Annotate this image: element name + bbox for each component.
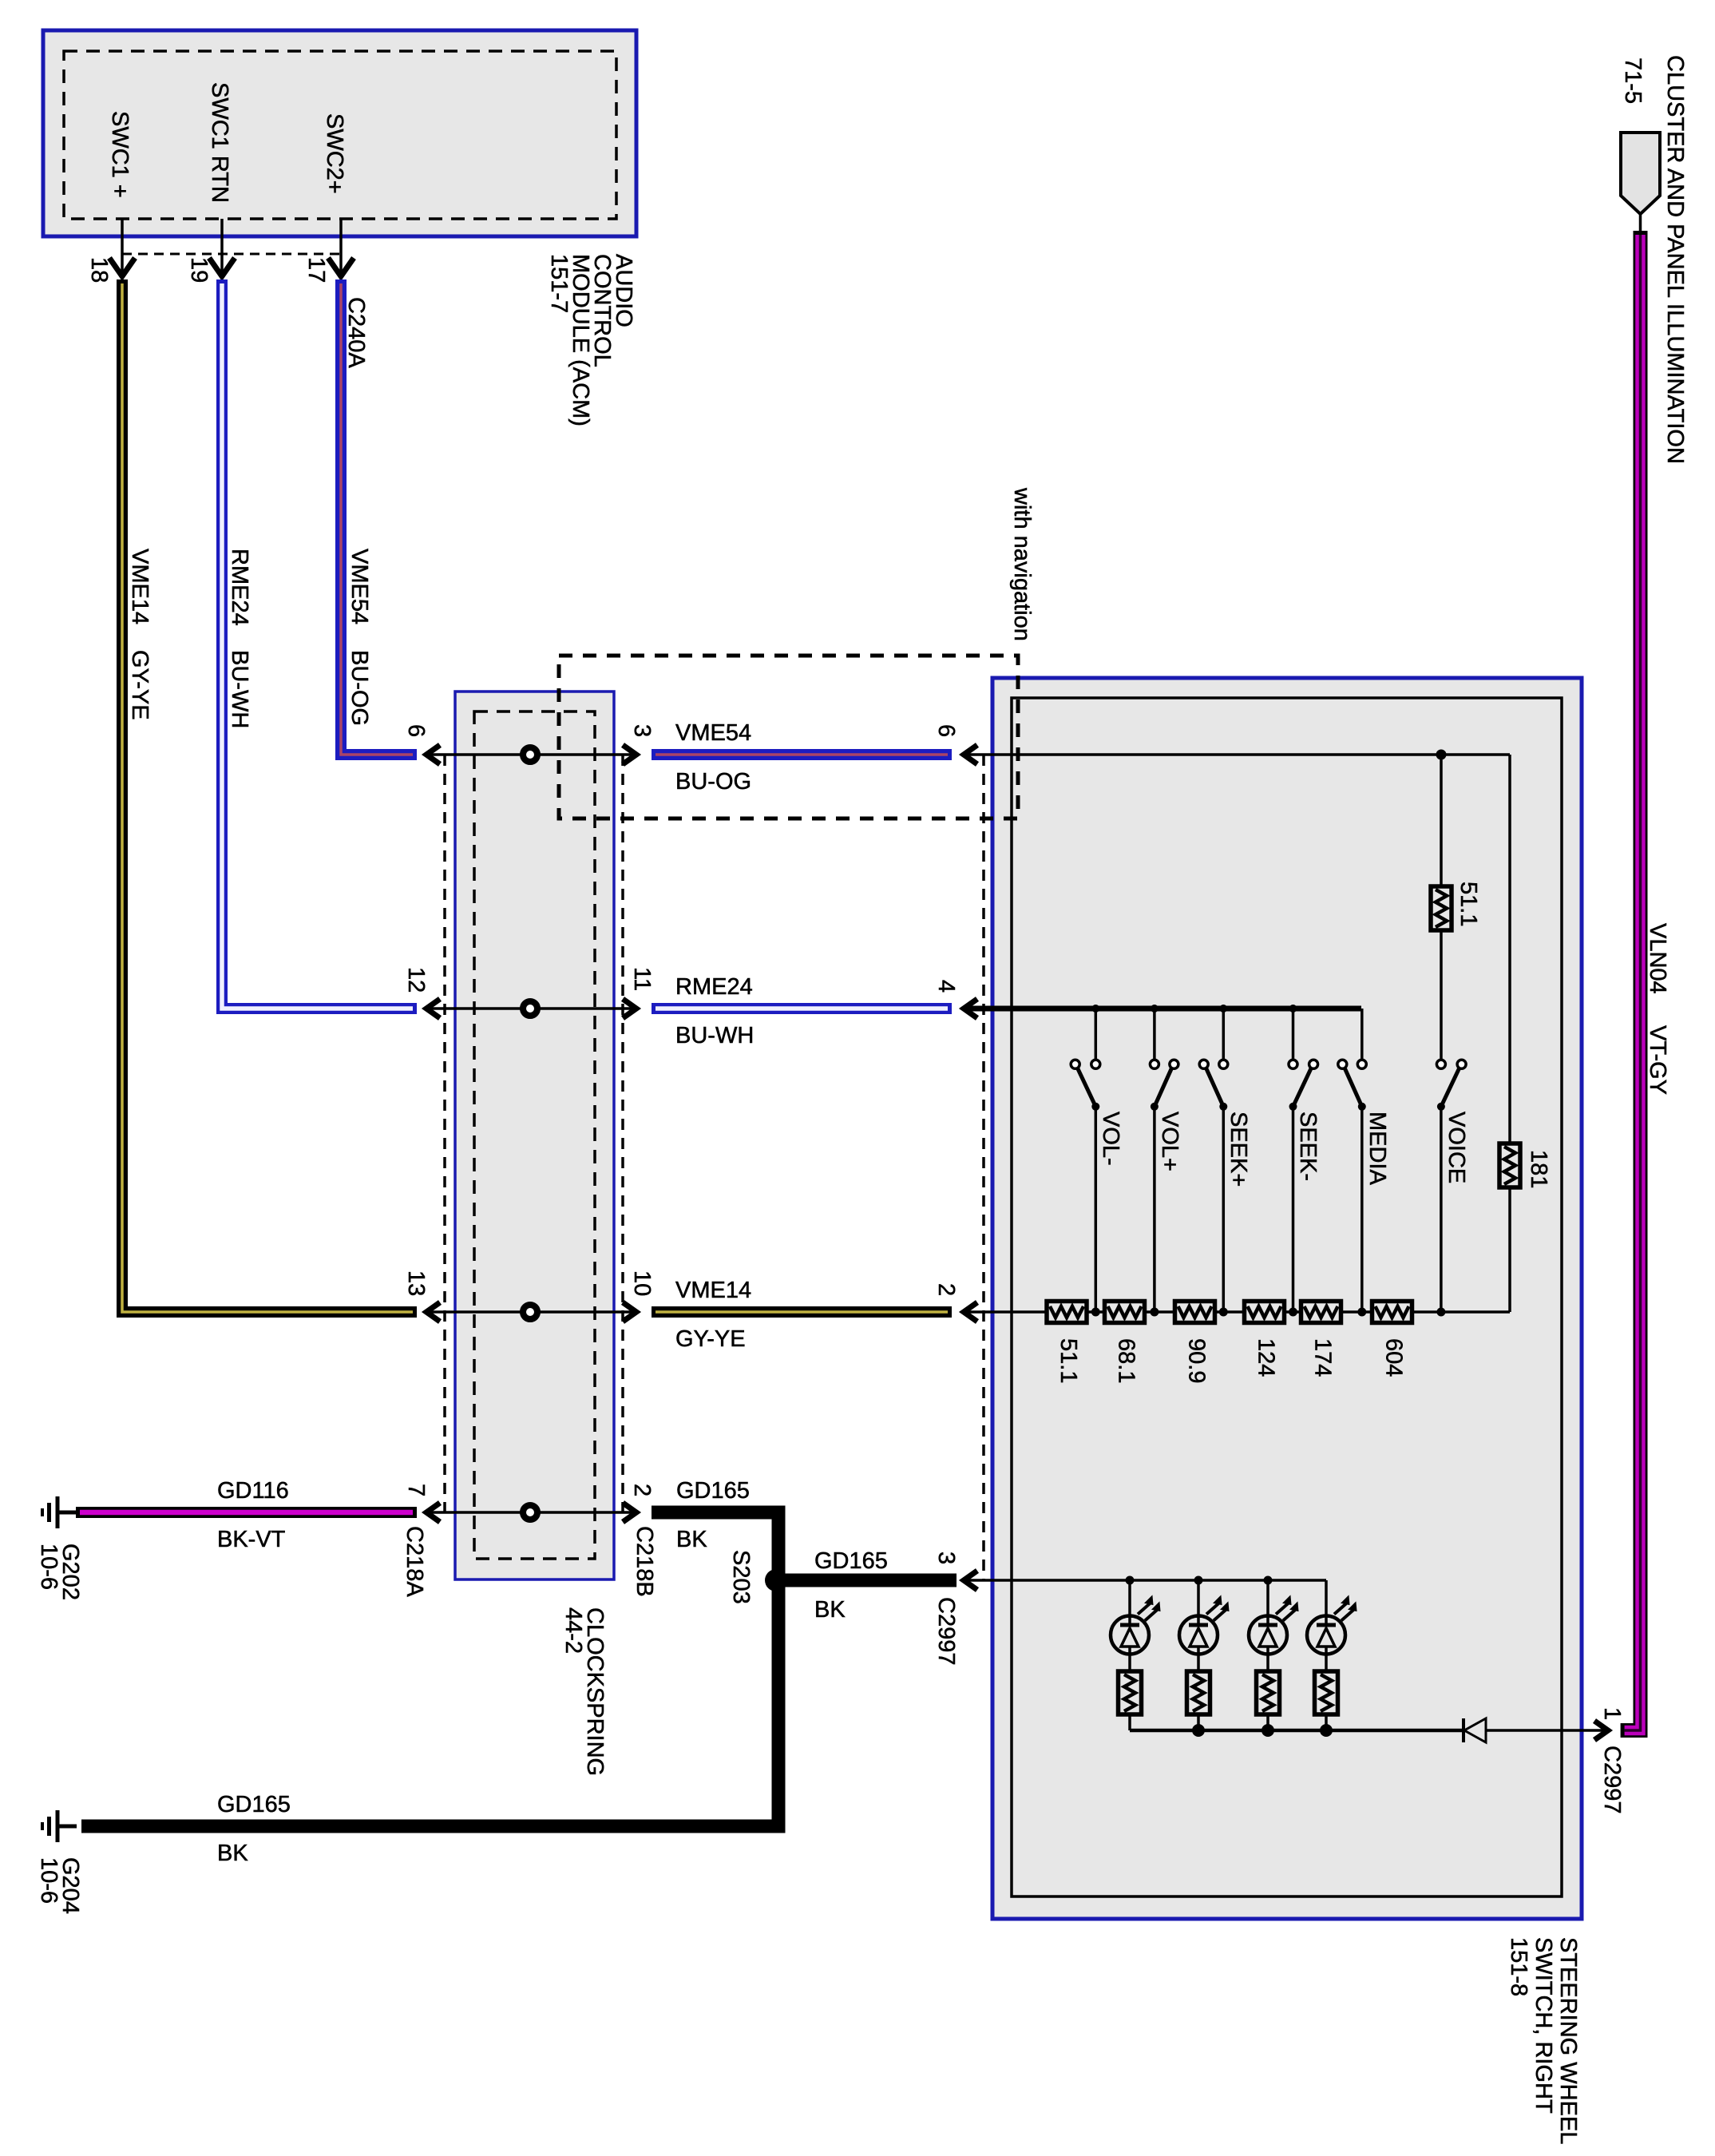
- illumination resistor 4: [1315, 1671, 1338, 1714]
- bus junction at x=1619.5: [1289, 1005, 1297, 1013]
- svg-text:BK: BK: [676, 1527, 707, 1552]
- svg-text:19: 19: [186, 257, 212, 283]
- clockspring wire pass-through at y=1643: [428, 1310, 635, 1314]
- resistor 174: [1301, 1302, 1341, 1323]
- net GD165 inside switch (LED top bus): [964, 1579, 1326, 1582]
- ladder junction at x=1445.9: [1150, 1308, 1159, 1317]
- LED column lead lower 2: [1197, 1714, 1200, 1730]
- resistor 124: [1245, 1302, 1285, 1323]
- svg-text:2: 2: [629, 1484, 655, 1496]
- switch VOL+: [1150, 1060, 1159, 1068]
- wire 181 to VME14 net: [1508, 1187, 1511, 1312]
- svg-text:6: 6: [403, 724, 429, 737]
- svg-text:10: 10: [629, 1270, 655, 1296]
- clockspring right arrow at y=1643: [623, 1302, 636, 1322]
- clockspring module box: [455, 692, 614, 1579]
- resistor 51.1: [1047, 1302, 1087, 1323]
- net VME54 inside switch: [964, 753, 1510, 756]
- svg-text:RME24: RME24: [675, 974, 753, 1000]
- svg-text:12: 12: [403, 967, 429, 993]
- svg-text:VLN04: VLN04: [1645, 923, 1670, 994]
- branch to resistor 51.1: [1440, 755, 1443, 886]
- svg-text:51.1: 51.1: [1056, 1338, 1081, 1383]
- bus junction at x=1532.3: [1219, 1005, 1227, 1013]
- svg-text:SWC2+: SWC2+: [322, 113, 347, 194]
- LED column lead upper 2: [1197, 1580, 1200, 1625]
- svg-text:STEERING WHEELSWITCH, RIGHT151: STEERING WHEELSWITCH, RIGHT151-8: [1506, 1937, 1581, 2144]
- LED top bus junction x=1501: [1194, 1576, 1203, 1585]
- switch connector arrow pin 4: [964, 999, 977, 1018]
- svg-text:4: 4: [933, 980, 959, 993]
- ACM pin lead 18: [121, 219, 124, 275]
- steering wheel switch module box: [992, 678, 1582, 1919]
- switch connector arrow pin 3: [964, 1571, 977, 1590]
- LED top bus junction x=1588: [1264, 1576, 1273, 1585]
- svg-text:G20210-6: G20210-6: [36, 1544, 83, 1600]
- svg-text:C2997: C2997: [933, 1597, 959, 1665]
- ladder junction at x=1372.3: [1091, 1308, 1100, 1317]
- connector arrow pin 19: [209, 258, 235, 276]
- clockspring dashed boundary: [474, 711, 595, 1559]
- ladder junction at x=1532.3: [1219, 1308, 1228, 1317]
- svg-text:BU-OG: BU-OG: [347, 650, 372, 726]
- resistor 90.9: [1175, 1302, 1215, 1323]
- wire VME14 net segment 1677-1720: [1339, 1310, 1373, 1314]
- switch VOICE: [1436, 1060, 1445, 1068]
- svg-text:VME54: VME54: [675, 720, 751, 746]
- LED column lead lower 3: [1266, 1714, 1269, 1730]
- wire VLN04 VT-GY: [1621, 231, 1641, 1730]
- svg-text:with navigation: with navigation: [1009, 487, 1035, 641]
- svg-text:CLOCKSPRING44-2: CLOCKSPRING44-2: [560, 1607, 608, 1776]
- svg-text:VT-GY: VT-GY: [1645, 1025, 1670, 1095]
- clockspring pass-through circle at y=1263: [523, 1001, 537, 1016]
- svg-text:71-5: 71-5: [1620, 57, 1646, 104]
- switch output at x=1372.3: [1095, 1107, 1098, 1312]
- resistor 68.1: [1105, 1302, 1145, 1323]
- illumination resistor 1: [1119, 1671, 1142, 1714]
- svg-text:VME54: VME54: [347, 549, 372, 624]
- svg-text:C2997: C2997: [1599, 1746, 1625, 1813]
- clockspring left arrow at y=1643: [426, 1302, 440, 1322]
- svg-text:S203: S203: [728, 1550, 754, 1604]
- wire VME54 BU-OG (SWC2+): [341, 279, 417, 755]
- ACM module box (AUDIO CONTROL MODULE): [43, 30, 636, 236]
- svg-text:BU-WH: BU-WH: [675, 1023, 754, 1048]
- svg-text:C218B: C218B: [632, 1526, 657, 1597]
- switch output at x=1705.8: [1361, 1107, 1364, 1312]
- svg-text:13: 13: [403, 1270, 429, 1296]
- illumination resistor 3: [1257, 1671, 1280, 1714]
- clockspring left arrow at y=1894: [426, 1503, 440, 1522]
- wire VME14 net segment 1431-1472: [1143, 1310, 1175, 1314]
- svg-text:18: 18: [86, 257, 112, 283]
- lead from off-page connector: [1639, 214, 1642, 232]
- switch drop at x=1532.3: [1222, 1009, 1226, 1059]
- wire VME54 BU-OG (clockspring to switch): [652, 749, 952, 760]
- ACM pin lead 19: [220, 219, 224, 275]
- clockspring right arrow at y=945: [623, 745, 636, 764]
- ACM pin lead 17: [339, 219, 343, 275]
- svg-text:GD165: GD165: [814, 1548, 888, 1574]
- svg-text:G20410-6: G20410-6: [36, 1857, 83, 1914]
- illumination resistor 2: [1187, 1671, 1210, 1714]
- svg-text:BK: BK: [814, 1597, 846, 1623]
- svg-text:181: 181: [1526, 1150, 1551, 1188]
- svg-text:C240A: C240A: [343, 297, 369, 368]
- wire VME14 net segment 1361-1386: [1087, 1310, 1107, 1314]
- clockspring pass-through circle at y=1894: [523, 1505, 537, 1520]
- wire VME14 net segment 1767-1891: [1411, 1310, 1510, 1314]
- svg-text:BU-WH: BU-WH: [227, 650, 252, 728]
- svg-text:604: 604: [1381, 1338, 1407, 1377]
- connector arrow pin 17: [328, 258, 354, 276]
- switch output at x=1619.5: [1292, 1107, 1295, 1312]
- LED 2: [1179, 1616, 1218, 1655]
- LED 4: [1307, 1616, 1345, 1655]
- svg-text:17: 17: [303, 257, 329, 283]
- connector arrow pin 18: [109, 258, 135, 276]
- svg-text:GD165: GD165: [676, 1478, 750, 1504]
- switch SEEK-: [1289, 1060, 1297, 1068]
- svg-text:GY-YE: GY-YE: [675, 1326, 746, 1352]
- clockspring left arrow at y=945: [426, 745, 440, 764]
- connector C218A dashed line: [443, 755, 446, 1517]
- LED column lead mid 4: [1325, 1647, 1328, 1671]
- svg-text:VOL+: VOL+: [1157, 1112, 1182, 1171]
- LED column lead upper 1: [1128, 1580, 1131, 1625]
- svg-text:VME14: VME14: [127, 549, 152, 624]
- switch drop at x=1445.9: [1153, 1009, 1156, 1059]
- switch SEEK+: [1199, 1060, 1208, 1068]
- LED 1: [1111, 1616, 1149, 1655]
- svg-text:VOL-: VOL-: [1098, 1112, 1123, 1166]
- ladder junction at x=1705.8: [1357, 1308, 1366, 1317]
- clockspring pass-through circle at y=945: [523, 747, 537, 762]
- svg-text:SWC1 +: SWC1 +: [107, 111, 133, 198]
- ladder junction at x=1619.5: [1289, 1308, 1297, 1317]
- svg-text:51.1: 51.1: [1456, 882, 1481, 926]
- LED column lead lower 4: [1325, 1714, 1328, 1730]
- wire 51.1 to VOICE switch: [1440, 930, 1443, 1059]
- net 181 branch: [1508, 755, 1511, 1143]
- switch MEDIA: [1338, 1060, 1347, 1068]
- connector C218B dashed line: [621, 755, 624, 1517]
- switch connector arrow pin 6: [964, 745, 977, 764]
- svg-text:6: 6: [933, 724, 959, 737]
- LED column lead lower 1: [1128, 1714, 1131, 1730]
- svg-text:VME14: VME14: [675, 1278, 751, 1303]
- clockspring wire pass-through at y=1263: [428, 1007, 635, 1010]
- LED column lead mid 3: [1266, 1647, 1269, 1671]
- svg-text:BU-OG: BU-OG: [675, 769, 751, 795]
- junction wire1/51.1 branch: [1436, 750, 1447, 760]
- connector C2997 dashed line: [982, 755, 985, 1580]
- LED bottom bus junction x=1661: [1320, 1724, 1333, 1737]
- wire GD116 BK-VT: [76, 1507, 417, 1518]
- svg-text:GD165: GD165: [217, 1792, 291, 1817]
- LED 3: [1249, 1616, 1287, 1655]
- wire RME24 BU-WH (clockspring to switch): [652, 1003, 952, 1014]
- svg-text:AUDIOCONTROLMODULE (ACM)151-7: AUDIOCONTROLMODULE (ACM)151-7: [546, 254, 636, 426]
- LED column lead mid 1: [1128, 1647, 1131, 1671]
- LED top bus junction x=1415: [1126, 1576, 1135, 1585]
- svg-text:C218A: C218A: [402, 1526, 427, 1597]
- steering wheel switch inner outline: [1012, 698, 1562, 1896]
- svg-text:CLUSTER AND PANEL ILLUMINATION: CLUSTER AND PANEL ILLUMINATION: [1662, 55, 1688, 464]
- switch drop at x=1619.5: [1292, 1009, 1295, 1059]
- svg-text:SEEK-: SEEK-: [1295, 1112, 1321, 1181]
- svg-text:RME24: RME24: [227, 549, 252, 626]
- wire VME14 GY-YE (clockspring to switch): [652, 1306, 952, 1318]
- clockspring right arrow at y=1894: [623, 1503, 636, 1522]
- svg-text:VOICE: VOICE: [1444, 1112, 1469, 1183]
- switch drop at x=1372.3: [1095, 1009, 1098, 1059]
- wire VME14 net segment 1207-1311: [964, 1310, 1047, 1314]
- clockspring left arrow at y=1263: [426, 999, 440, 1018]
- wire VME14 net segment 1608-1632: [1284, 1310, 1303, 1314]
- wire GD165 BK (clockspring to S203 and G204): [81, 1512, 778, 1826]
- bus junction at x=1445.9: [1151, 1005, 1159, 1013]
- clockspring wire pass-through at y=1894: [428, 1511, 635, 1514]
- switch output at x=1532.3: [1222, 1107, 1226, 1312]
- ladder junction at x=1804.9: [1436, 1308, 1445, 1317]
- svg-text:GY-YE: GY-YE: [127, 650, 152, 720]
- svg-text:3: 3: [629, 724, 655, 737]
- svg-text:BK: BK: [217, 1841, 248, 1866]
- clockspring pass-through circle at y=1643: [523, 1305, 537, 1319]
- svg-text:174: 174: [1310, 1338, 1336, 1377]
- LED bottom bus junction x=1588: [1261, 1724, 1274, 1737]
- connector arrow pin 1 (C2997): [1594, 1721, 1608, 1740]
- wire VME14 GY-YE (SWC1+): [122, 279, 417, 1312]
- bus RME24 inside switch: [964, 1006, 1361, 1012]
- svg-text:11: 11: [629, 967, 655, 991]
- svg-text:GD116: GD116: [217, 1478, 289, 1504]
- wire VME14 net segment 1521-1559: [1214, 1310, 1245, 1314]
- switch connector arrow pin 2: [964, 1302, 977, 1322]
- resistor 51.1 (voice feed): [1431, 886, 1452, 930]
- splice S203: [765, 1569, 787, 1591]
- ground G204: [56, 1810, 60, 1842]
- LED bottom bus: [1130, 1729, 1463, 1733]
- ground G202: [56, 1496, 60, 1528]
- svg-text:BK-VT: BK-VT: [217, 1527, 286, 1552]
- LED column lead mid 2: [1197, 1647, 1200, 1671]
- with-navigation dashed option box: [559, 656, 1018, 818]
- bus junction at x=1372.3: [1091, 1005, 1099, 1013]
- wire GD165 BK (S203 to switch): [778, 1574, 957, 1587]
- resistor 604: [1372, 1302, 1412, 1323]
- svg-text:3: 3: [933, 1552, 959, 1564]
- ACM dashed boundary: [64, 51, 616, 219]
- svg-text:90.9: 90.9: [1184, 1338, 1210, 1383]
- LED column lead upper 4: [1325, 1580, 1328, 1625]
- svg-text:SEEK+: SEEK+: [1226, 1112, 1251, 1187]
- bus corner drop MEDIA: [1361, 1009, 1364, 1059]
- svg-text:SWC1 RTN: SWC1 RTN: [207, 82, 232, 203]
- svg-text:124: 124: [1254, 1338, 1279, 1377]
- switch VOL-: [1071, 1060, 1079, 1068]
- connector C240A dashed line: [122, 253, 341, 256]
- switch output at x=1804.9: [1440, 1107, 1443, 1312]
- off-page connector CLUSTER AND PANEL ILLUMINATION: [1621, 133, 1660, 214]
- svg-text:2: 2: [933, 1283, 959, 1296]
- svg-text:1: 1: [1599, 1707, 1625, 1720]
- LED column lead upper 3: [1266, 1580, 1269, 1625]
- switch output at x=1445.9: [1153, 1107, 1156, 1312]
- wire RME24 BU-WH (SWC1 RTN): [222, 279, 417, 1009]
- svg-text:MEDIA: MEDIA: [1364, 1112, 1390, 1186]
- clockspring wire pass-through at y=945: [428, 753, 635, 756]
- diode (illumination): [1464, 1718, 1486, 1742]
- svg-text:68.1: 68.1: [1114, 1338, 1139, 1383]
- clockspring right arrow at y=1263: [623, 999, 636, 1018]
- resistor 181: [1499, 1143, 1520, 1187]
- LED bottom bus junction x=1501: [1192, 1724, 1205, 1737]
- wire diode to C2997 pin1: [1486, 1729, 1606, 1732]
- svg-text:7: 7: [403, 1484, 429, 1496]
